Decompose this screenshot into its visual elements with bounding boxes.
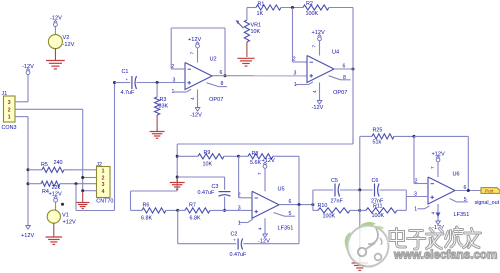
svg-text:2: 2 [102,176,105,182]
svg-text:4: 4 [312,90,318,93]
svg-text:V2: V2 [63,35,70,41]
svg-text:+12V: +12V [262,158,275,164]
svg-text:51k: 51k [373,140,382,146]
svg-text:OP07: OP07 [333,90,347,96]
svg-text:C6: C6 [372,178,379,184]
svg-text:5: 5 [464,197,467,203]
svg-text:R11: R11 [373,203,383,209]
svg-text:2: 2 [293,56,296,62]
svg-text:R6: R6 [143,203,150,209]
svg-text:R3: R3 [160,97,167,103]
svg-text:4.7uF: 4.7uF [121,90,135,96]
svg-text:C1: C1 [122,69,129,75]
svg-text:+12V: +12V [63,219,76,225]
svg-text:R5: R5 [41,162,48,168]
svg-text:3: 3 [238,206,241,212]
svg-text:6: 6 [464,185,467,191]
svg-text:R1: R1 [258,1,265,7]
svg-text:CNT70: CNT70 [96,199,113,205]
svg-text:LF351: LF351 [454,212,470,218]
svg-text:100K: 100K [306,11,319,17]
svg-text:0.47uF: 0.47uF [230,252,247,258]
svg-text:100K: 100K [372,213,385,219]
svg-text:R9: R9 [204,150,211,156]
svg-text:U4: U4 [332,50,339,56]
svg-text:4: 4 [258,227,264,230]
svg-text:VR1: VR1 [251,22,262,28]
svg-text:Port: Port [485,189,494,194]
svg-text:U5: U5 [278,186,285,192]
svg-text:1: 1 [102,169,105,175]
svg-text:7: 7 [430,166,436,169]
svg-text:U2: U2 [210,57,217,63]
svg-text:0.47uF: 0.47uF [198,190,215,196]
svg-text:6: 6 [343,63,346,69]
svg-text:1K: 1K [257,11,264,17]
svg-text:R7: R7 [189,203,196,209]
svg-text:7: 7 [257,172,263,175]
svg-text:C5: C5 [331,178,338,184]
svg-text:R25: R25 [373,128,383,134]
svg-text:+12V: +12V [312,30,325,36]
svg-text:1: 1 [238,220,241,226]
svg-text:7: 7 [190,52,196,55]
svg-text:2: 2 [8,107,11,113]
svg-text:4: 4 [431,212,437,215]
svg-text:240: 240 [54,160,63,166]
svg-text:+: + [233,238,236,243]
svg-text:J1: J1 [2,91,8,97]
svg-text:U6: U6 [453,171,460,177]
svg-text:3: 3 [8,100,11,106]
svg-text:3: 3 [173,78,176,84]
svg-text:www.elecfans.com: www.elecfans.com [393,249,497,262]
svg-text:5.6K: 5.6K [250,160,261,166]
svg-text:5: 5 [289,211,292,217]
svg-text:10K: 10K [251,29,261,35]
svg-text:V1: V1 [62,213,69,219]
svg-text:2: 2 [415,178,418,184]
svg-text:C2: C2 [231,232,238,238]
svg-text:R8: R8 [252,151,259,157]
svg-text:4: 4 [190,97,196,100]
svg-text:J2: J2 [96,162,102,168]
svg-text:LF351: LF351 [278,226,294,232]
svg-text:1: 1 [172,89,175,95]
svg-text:CON3: CON3 [2,125,17,131]
svg-text:1: 1 [414,207,417,213]
svg-text:3: 3 [414,191,417,197]
svg-text:6: 6 [289,199,292,205]
svg-text:1: 1 [294,82,297,88]
svg-text:8: 8 [343,75,346,81]
svg-text:27nF: 27nF [331,198,344,204]
svg-text:22k: 22k [52,185,61,191]
svg-text:100K: 100K [323,214,336,220]
svg-text:signal_out: signal_out [475,200,500,206]
svg-text:6.8K: 6.8K [141,215,152,221]
svg-text:-12V: -12V [312,105,324,111]
svg-text:R2: R2 [306,1,313,7]
svg-text:-12V: -12V [190,112,202,118]
svg-text:6.8K: 6.8K [190,215,201,221]
svg-text:+: + [126,77,129,82]
svg-text:7: 7 [312,45,318,48]
svg-text:R10: R10 [318,203,328,209]
svg-text:OP07: OP07 [209,97,223,103]
svg-text:-12V: -12V [63,42,75,48]
svg-text:3: 3 [102,182,105,188]
svg-text:+12V: +12V [188,37,201,43]
svg-text:+12V: +12V [21,233,34,239]
svg-text:33K: 33K [159,104,169,110]
svg-text:8: 8 [221,81,224,87]
svg-text:10K: 10K [203,162,213,168]
svg-text:1: 1 [8,115,11,121]
svg-text:4: 4 [102,189,105,195]
svg-text:6: 6 [220,70,223,76]
svg-text:3: 3 [294,71,297,77]
